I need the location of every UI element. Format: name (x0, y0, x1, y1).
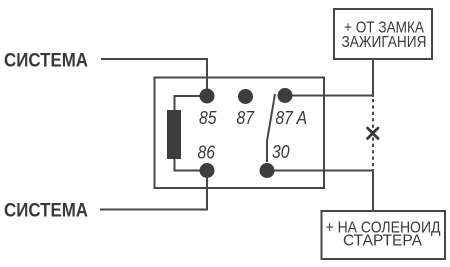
svg-text:85: 85 (199, 108, 217, 128)
svg-text:СТАРТЕРА: СТАРТЕРА (343, 233, 423, 250)
svg-text:СИСТЕМА: СИСТЕМА (4, 50, 88, 72)
svg-text:87 A: 87 A (276, 108, 308, 128)
svg-text:ЗАЖИГАНИЯ: ЗАЖИГАНИЯ (342, 34, 427, 51)
svg-text:87: 87 (237, 108, 255, 128)
svg-text:30: 30 (272, 142, 290, 162)
svg-text:СИСТЕМА: СИСТЕМА (4, 200, 88, 222)
svg-text:86: 86 (198, 143, 216, 163)
